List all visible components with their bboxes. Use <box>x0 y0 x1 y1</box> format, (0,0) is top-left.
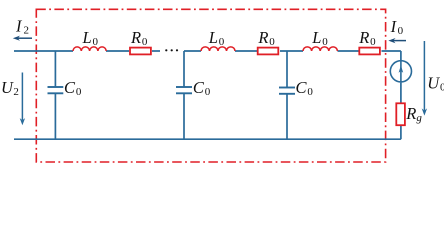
svg-text:Rg: Rg <box>405 104 422 124</box>
svg-text:L0: L0 <box>311 28 328 48</box>
svg-text:R0: R0 <box>257 28 275 48</box>
svg-text:U0: U0 <box>427 73 444 93</box>
svg-text:I0: I0 <box>390 17 404 37</box>
svg-text:L0: L0 <box>82 28 99 48</box>
svg-text:R0: R0 <box>130 28 148 48</box>
svg-text:U2: U2 <box>1 78 19 98</box>
svg-text:C0: C0 <box>296 78 314 98</box>
svg-text:C0: C0 <box>64 78 82 98</box>
svg-text:R0: R0 <box>358 28 376 48</box>
svg-text:L0: L0 <box>208 28 225 48</box>
svg-text:I2: I2 <box>15 17 29 37</box>
svg-text:C0: C0 <box>193 78 211 98</box>
